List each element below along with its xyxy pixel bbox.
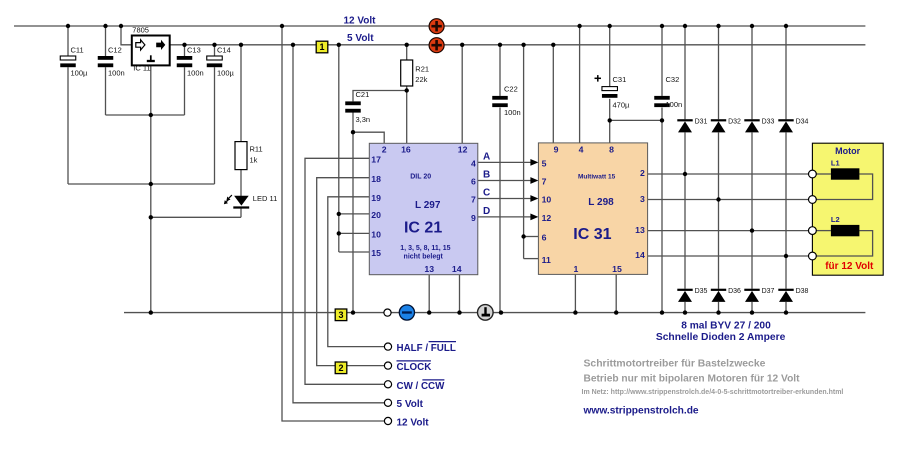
- node IC21 pin 20: [371, 210, 381, 220]
- capacitor C12: [98, 56, 114, 67]
- inductor L2: [831, 225, 860, 236]
- node 7805 label: [132, 26, 149, 35]
- node IC21 pin 7: [471, 195, 476, 205]
- node junction GND x616.2: [614, 310, 618, 314]
- wire motor coil L1 loop: [816, 174, 872, 200]
- svg-text:D31: D31: [695, 118, 708, 125]
- regulator IC11 gnd symbol: [147, 55, 155, 61]
- diode D33: [744, 120, 759, 132]
- node C31 plus sign: [595, 75, 602, 82]
- svg-text:11: 11: [542, 255, 551, 265]
- node C13 label: [187, 45, 204, 77]
- svg-text:LED 11: LED 11: [253, 194, 277, 203]
- svg-text:16: 16: [401, 145, 411, 155]
- node motor terminal 4: [809, 252, 817, 260]
- svg-text:2: 2: [382, 145, 387, 155]
- wire pin14 to GND: [459, 275, 461, 313]
- svg-text:3: 3: [640, 194, 645, 204]
- wire C31-C32 bottom link: [610, 119, 662, 121]
- diode D35: [677, 290, 692, 302]
- node junction GND x662: [660, 310, 664, 314]
- svg-text:R11: R11: [250, 145, 263, 154]
- node label D: [483, 206, 490, 217]
- node junction LED/gnd column: [149, 215, 153, 219]
- capacitor C31: [602, 87, 618, 98]
- node C11 label: [71, 45, 89, 77]
- node IC21 unused pins label: [400, 245, 450, 252]
- svg-text:2: 2: [640, 168, 645, 178]
- node terminal CLOCK: [384, 362, 391, 369]
- svg-text:10: 10: [542, 195, 552, 205]
- node C14 label: [217, 45, 235, 77]
- node IC21 pin 15: [371, 248, 381, 258]
- node 5 Volt terminal label: [397, 399, 424, 410]
- svg-text:D: D: [483, 206, 490, 217]
- node junction phase1/D31: [683, 172, 687, 176]
- svg-text:C12: C12: [108, 45, 122, 54]
- node IC21 pin 2: [382, 145, 387, 155]
- wire motor phase 4: [648, 255, 809, 257]
- wire D31 column top: [684, 26, 686, 119]
- node D33 value label: [762, 118, 775, 125]
- node junction phase4/D34: [784, 254, 788, 258]
- svg-text:CW / CCW: CW / CCW: [397, 381, 446, 392]
- svg-text:20: 20: [371, 210, 381, 220]
- node junction GND x459.5: [457, 310, 461, 314]
- node IC21 L 297 label: [415, 200, 441, 211]
- diode D31: [677, 120, 692, 132]
- node L1 label: [831, 159, 840, 168]
- svg-text:C31: C31: [613, 75, 627, 84]
- svg-text:nicht belegt: nicht belegt: [404, 253, 444, 260]
- wire C21 bottom to pin2: [353, 111, 384, 143]
- node description line1: [584, 359, 766, 370]
- node IC21 name label: [404, 220, 442, 237]
- svg-text:100n: 100n: [187, 69, 204, 78]
- wire C11-C14 bottom: [68, 183, 215, 185]
- diode D38: [778, 290, 793, 302]
- node website label: [583, 406, 699, 417]
- svg-text:14: 14: [635, 250, 645, 260]
- node C21 label: [356, 90, 371, 124]
- svg-text:A: A: [483, 151, 490, 162]
- svg-text:DIL 20: DIL 20: [410, 174, 431, 181]
- svg-text:C: C: [483, 187, 490, 198]
- node CW/CCW label: [397, 380, 446, 392]
- svg-text:14: 14: [452, 264, 462, 274]
- svg-text:1: 1: [319, 42, 324, 52]
- svg-text:12 Volt: 12 Volt: [343, 16, 376, 27]
- regulator IC11 input arrow: [136, 40, 145, 50]
- wire motor phase 1: [648, 173, 809, 175]
- node junction 12V x121: [119, 24, 123, 28]
- svg-text:Betrieb nur mit bipolaren Moto: Betrieb nur mit bipolaren Motoren für 12…: [584, 374, 801, 385]
- wire C31 column: [609, 26, 611, 143]
- node im netz line: [582, 389, 844, 396]
- svg-text:HALF / FULL: HALF / FULL: [397, 343, 456, 354]
- svg-text:6: 6: [542, 233, 547, 243]
- node C12 label: [108, 45, 125, 77]
- svg-text:100µ: 100µ: [217, 69, 235, 78]
- node D31 value label: [695, 118, 708, 125]
- wire C11 column: [67, 26, 69, 184]
- node junction 12V x609.7: [608, 24, 612, 28]
- svg-text:D34: D34: [796, 118, 809, 125]
- svg-text:CLOCK: CLOCK: [397, 362, 432, 373]
- node junction 12V x282: [280, 24, 284, 28]
- node D38 value label: [796, 288, 809, 295]
- svg-text:C14: C14: [217, 45, 231, 54]
- wire R11 top: [240, 45, 242, 142]
- node supply terminal 12V plus: [429, 19, 444, 34]
- node IC21 pin 10: [371, 230, 381, 240]
- wire C13 column: [184, 45, 186, 115]
- node IC31 pin 8: [609, 145, 614, 155]
- node D35 value label: [695, 288, 708, 295]
- node IC21 pin 14: [452, 264, 462, 274]
- wire C12 column: [105, 26, 107, 115]
- svg-text:100n: 100n: [108, 69, 125, 78]
- node 12 Volt label: [343, 16, 376, 27]
- node fuer 12 Volt label: [825, 261, 874, 272]
- svg-text:10: 10: [371, 230, 381, 240]
- svg-text:www.strippenstrolch.de: www.strippenstrolch.de: [583, 406, 699, 417]
- svg-text:D37: D37: [762, 288, 775, 295]
- node junction 5V x241: [239, 43, 243, 47]
- node supply terminal 5V plus: [429, 38, 444, 53]
- resistor R11: [235, 142, 247, 170]
- node IC31 pin 14: [635, 250, 645, 260]
- capacitor C32: [654, 96, 670, 107]
- node IC31 pin 9: [554, 145, 559, 155]
- node IC21 nicht belegt label: [404, 253, 444, 260]
- node D37 value label: [762, 288, 775, 295]
- node L2 label: [831, 215, 840, 224]
- node label C: [483, 187, 490, 198]
- capacitor C21: [345, 101, 361, 112]
- wire pin17 to CW/CCW: [305, 158, 384, 384]
- svg-text:18: 18: [371, 174, 381, 184]
- capacitor C11: [60, 56, 76, 67]
- diode D37: [744, 290, 759, 302]
- svg-text:6: 6: [471, 177, 476, 187]
- node connector 2 marker: [335, 362, 347, 374]
- node diodes title line2: [656, 332, 786, 343]
- node junction 5V x523.6: [521, 43, 525, 47]
- op-amp U1 IC21 L297 box: [369, 143, 478, 274]
- motor box: [812, 143, 883, 275]
- node C31 label: [613, 75, 631, 109]
- node IC21 pin 9: [471, 213, 476, 223]
- svg-text:2: 2: [338, 363, 343, 373]
- node HALF/FULL label: [397, 342, 457, 354]
- wire D37 bottom: [751, 302, 753, 313]
- resistor R21: [401, 60, 413, 86]
- svg-text:9: 9: [471, 213, 476, 223]
- node 5 Volt label: [347, 33, 374, 44]
- node IC31 pin 6: [542, 233, 547, 243]
- wire motor coil L2 loop: [816, 231, 872, 256]
- wire R21 bottom to pin16: [406, 86, 408, 143]
- wire C12-C13 bottom: [106, 114, 185, 116]
- node motor terminal 3: [809, 227, 817, 235]
- node description line2: [584, 374, 801, 385]
- wire pin12 to 5V: [461, 45, 463, 144]
- node IC21 pin 16: [401, 145, 411, 155]
- wire R21 top: [406, 45, 408, 60]
- svg-text:1, 3, 5, 8, 11, 15: 1, 3, 5, 8, 11, 15: [400, 245, 450, 252]
- node IC31 pin 5: [542, 159, 547, 169]
- svg-text:Schnelle Dioden 2 Ampere: Schnelle Dioden 2 Ampere: [656, 332, 786, 343]
- node D32 value label: [728, 118, 741, 125]
- svg-text:12: 12: [458, 145, 468, 155]
- node label B: [483, 169, 490, 180]
- svg-text:L 298: L 298: [588, 197, 614, 208]
- node IC31 Multiwatt 15 label: [578, 174, 616, 181]
- node IC31 pin 1: [573, 264, 578, 274]
- node GND terminal open: [384, 309, 391, 316]
- node junction C32 bottom: [660, 118, 664, 122]
- svg-text:5 Volt: 5 Volt: [347, 33, 374, 44]
- node junction phase3/D33: [750, 228, 754, 232]
- svg-text:D32: D32: [728, 118, 741, 125]
- svg-text:L1: L1: [831, 159, 840, 168]
- node junction GND x150.8: [149, 310, 153, 314]
- svg-text:100µ: 100µ: [71, 69, 89, 78]
- svg-text:17: 17: [371, 155, 381, 165]
- node junction R21/C21: [405, 88, 409, 92]
- node junction 12V x662: [660, 24, 664, 28]
- node IC21 pin 4: [471, 159, 476, 169]
- node diodes title line1: [681, 321, 771, 332]
- ground symbol circle: [478, 305, 494, 321]
- svg-text:4: 4: [579, 145, 584, 155]
- svg-text:19: 19: [371, 193, 381, 203]
- node label A: [483, 151, 490, 162]
- wire D38 bottom: [785, 302, 787, 313]
- node junction 12V x579.6: [577, 24, 581, 28]
- svg-text:D33: D33: [762, 118, 775, 125]
- svg-text:L 297: L 297: [415, 200, 441, 211]
- node D36 value label: [728, 288, 741, 295]
- node IC21 pin 18: [371, 174, 381, 184]
- node junction GND x575.4: [573, 310, 577, 314]
- node terminal HALF/FULL: [384, 343, 391, 350]
- wire pin4 to 12V: [579, 26, 581, 143]
- svg-text:Im Netz: http://www.strippenst: Im Netz: http://www.strippenstrolch.de/4…: [582, 389, 844, 396]
- wire pin1 to GND: [574, 274, 576, 312]
- wire GND rail: [124, 312, 865, 314]
- node junction pin10: [337, 231, 341, 235]
- node IC31 pin 15: [612, 264, 622, 274]
- node IC21 DIL 20 label: [410, 174, 431, 181]
- svg-text:Schrittmotortreiber für Bastel: Schrittmotortreiber für Bastelzwecke: [584, 359, 766, 370]
- node junction 12V x105.5: [103, 24, 107, 28]
- svg-text:13: 13: [424, 264, 434, 274]
- node IC31 pin 10: [542, 195, 552, 205]
- node junction GND x752: [750, 310, 754, 314]
- svg-text:D36: D36: [728, 288, 741, 295]
- svg-text:470µ: 470µ: [613, 100, 631, 109]
- node junction C12/C13/7805gnd: [149, 113, 153, 117]
- node connector 3 marker: [335, 309, 347, 321]
- svg-text:Motor: Motor: [835, 146, 860, 156]
- node R11 label: [250, 145, 263, 165]
- node IC31 pin 7: [542, 177, 547, 187]
- wire D32-D36 middle: [718, 132, 720, 288]
- node IC31 name label: [573, 226, 611, 243]
- LED LED11 emission arrows: [224, 195, 232, 204]
- svg-text:4: 4: [471, 159, 476, 169]
- svg-text:D35: D35: [695, 288, 708, 295]
- svg-text:12 Volt: 12 Volt: [397, 418, 430, 429]
- node junction 12V x718.5: [716, 24, 720, 28]
- node junction pin6 enable: [521, 234, 525, 238]
- node C22 label: [504, 85, 521, 118]
- node terminal CW/CCW: [384, 381, 391, 388]
- node supply terminal minus: [399, 305, 414, 320]
- svg-text:C13: C13: [187, 45, 201, 54]
- svg-text:7805: 7805: [132, 26, 149, 35]
- node junction pin20: [337, 212, 341, 216]
- LED LED11: [233, 196, 249, 208]
- node IC31 pin 11: [542, 255, 551, 265]
- node C32 label: [666, 75, 683, 109]
- node junction 12V x752: [750, 24, 754, 28]
- svg-text:C21: C21: [356, 90, 370, 99]
- node IC 11 label: [133, 63, 150, 72]
- wire C32 column: [661, 26, 663, 313]
- node connector 1 marker: [316, 41, 328, 53]
- svg-text:L2: L2: [831, 215, 840, 224]
- svg-text:8 mal BYV 27 / 200: 8 mal BYV 27 / 200: [681, 321, 771, 332]
- svg-text:D38: D38: [796, 288, 809, 295]
- wire pin13 to GND: [428, 275, 430, 313]
- node junction phase2/D32: [716, 197, 720, 201]
- wire 5V drop to terminal: [293, 45, 384, 403]
- svg-text:Multiwatt 15: Multiwatt 15: [578, 174, 616, 181]
- svg-text:100n: 100n: [666, 100, 683, 109]
- svg-text:IC 31: IC 31: [573, 226, 611, 243]
- node junction 5V x406.7: [405, 43, 409, 47]
- node IC31 pin 4: [579, 145, 584, 155]
- svg-text:8: 8: [609, 145, 614, 155]
- inductor L1: [831, 168, 860, 179]
- node junction 12V x786: [784, 24, 788, 28]
- op-amp U2 IC31 L298 box: [538, 143, 647, 275]
- wire pin9 to 5V: [552, 45, 554, 143]
- wire D34-D38 middle: [785, 132, 787, 288]
- wire 5V to pins 20/10/15: [339, 45, 370, 252]
- node junction 5V x338.8: [337, 43, 341, 47]
- svg-text:5 Volt: 5 Volt: [397, 399, 424, 410]
- node IC21 pin 6: [471, 177, 476, 187]
- node junction GND x718.5: [716, 310, 720, 314]
- wire D35 bottom: [684, 302, 686, 313]
- node junction 5V x214.5: [212, 43, 216, 47]
- node 12 Volt terminal label: [397, 418, 430, 429]
- wire pin15 to GND: [615, 274, 617, 312]
- svg-text:22k: 22k: [415, 75, 427, 84]
- node junction C21 bottom: [351, 130, 355, 134]
- node IC31 pin 2: [640, 168, 645, 178]
- node terminal 5V: [384, 399, 391, 406]
- svg-text:13: 13: [635, 225, 645, 235]
- wire D32 column top: [718, 26, 720, 119]
- node IC31 pin 12: [542, 213, 552, 223]
- node IC21 pin 19: [371, 193, 381, 203]
- svg-text:C22: C22: [504, 85, 518, 94]
- capacitor C13: [177, 56, 193, 67]
- node terminal 12V: [384, 417, 391, 424]
- svg-text:IC 21: IC 21: [404, 220, 442, 237]
- svg-text:15: 15: [612, 264, 622, 274]
- node IC31 L 298 label: [588, 197, 614, 208]
- svg-text:C32: C32: [666, 75, 680, 84]
- node IC21 pin 17: [371, 155, 381, 165]
- node IC21 pin 12: [458, 145, 468, 155]
- node IC31 pin 3: [640, 194, 645, 204]
- svg-text:12: 12: [542, 213, 552, 223]
- node junction 5V x184.5: [182, 43, 186, 47]
- wire 12V drop to terminal: [282, 26, 384, 421]
- svg-text:7: 7: [542, 177, 547, 187]
- wire 5V to pins 6/11 of IC31: [524, 45, 539, 259]
- svg-text:9: 9: [554, 145, 559, 155]
- wire 12V rail: [14, 25, 865, 27]
- node Motor label: [835, 146, 860, 156]
- svg-text:3: 3: [338, 310, 343, 320]
- wire motor phase 2: [648, 199, 809, 201]
- capacitor C14: [207, 56, 223, 67]
- wire pin19 to HALF/FULL: [328, 197, 385, 347]
- svg-text:1: 1: [573, 264, 578, 274]
- wire motor phase 3: [648, 230, 809, 232]
- wire 5V rail: [170, 44, 866, 46]
- wire C14 column: [214, 45, 216, 184]
- svg-text:IC 11: IC 11: [133, 63, 150, 72]
- node junction 5V x553.3: [551, 43, 555, 47]
- wire signal D: [478, 214, 539, 221]
- node junction 5V x462.2: [460, 43, 464, 47]
- node CLOCK label: [397, 361, 432, 373]
- svg-text:C11: C11: [71, 45, 84, 54]
- node motor terminal 1: [809, 170, 817, 178]
- node D34 value label: [796, 118, 809, 125]
- node IC21 pin 13: [424, 264, 434, 274]
- svg-text:5: 5: [542, 159, 547, 169]
- wire D33 column top: [751, 26, 753, 119]
- wire signal A: [478, 159, 539, 166]
- svg-text:B: B: [483, 169, 490, 180]
- wire R11-LED: [240, 169, 242, 196]
- wire 12V to 7805 input: [121, 26, 132, 45]
- svg-text:3,3n: 3,3n: [356, 115, 371, 124]
- svg-text:7: 7: [471, 195, 476, 205]
- node IC31 pin 13: [635, 225, 645, 235]
- node junction GND x501: [499, 310, 503, 314]
- wire LED to ground column: [151, 216, 241, 218]
- node junction 5V x500: [498, 43, 502, 47]
- wire signal C: [478, 195, 539, 202]
- wire C21 top link: [353, 91, 407, 102]
- wire pin18 to CLOCK: [317, 178, 385, 366]
- wire signal B: [478, 177, 539, 184]
- wire D31-D35 middle: [684, 132, 686, 288]
- node junction C11/C14: [149, 182, 153, 186]
- node junction GND x353: [351, 310, 355, 314]
- wire C21 node to GND: [352, 132, 354, 312]
